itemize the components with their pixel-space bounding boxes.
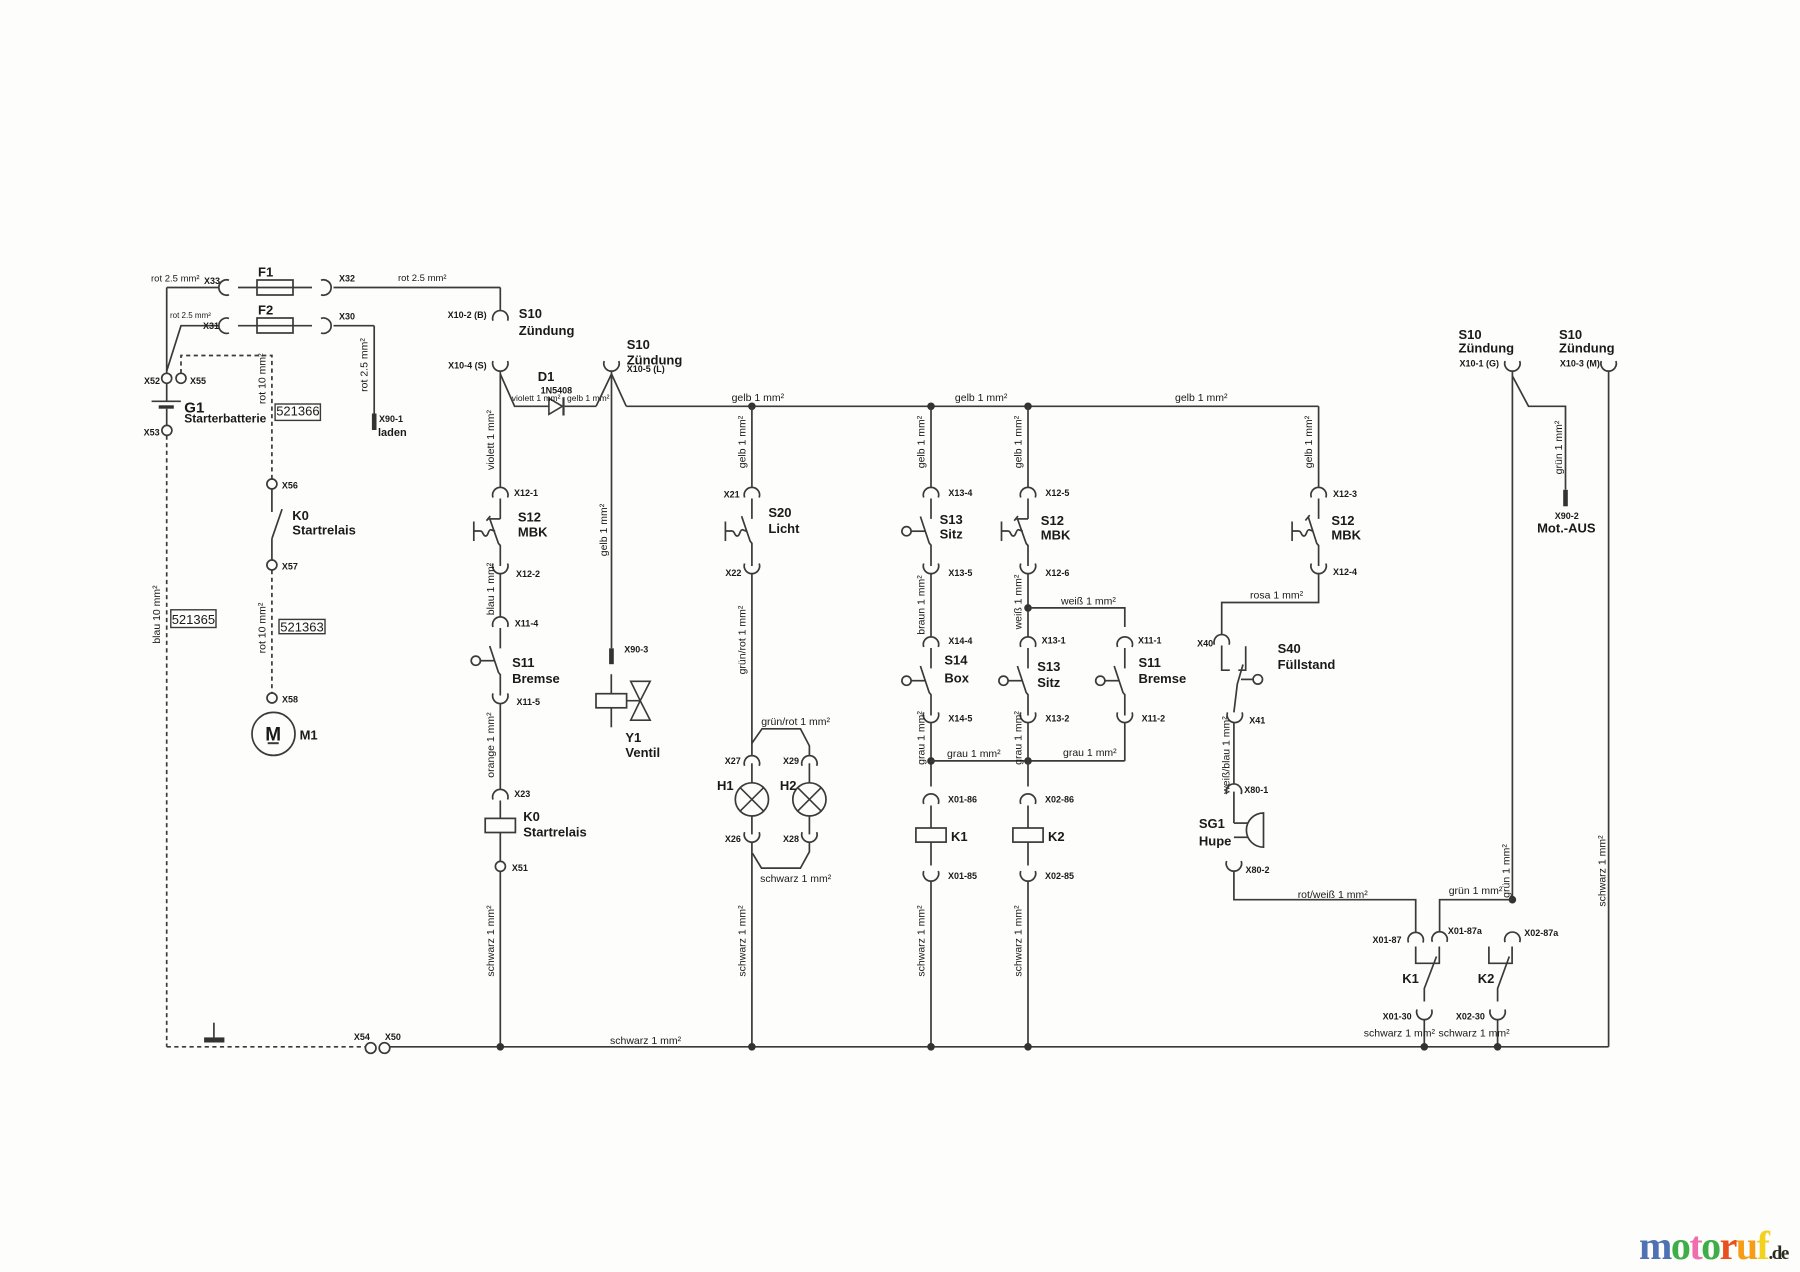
svg-text:X01-85: X01-85 [948, 871, 977, 881]
terminal X41 [1227, 712, 1242, 722]
switch S40 Fuellstand [1222, 646, 1230, 671]
svg-text:rot 2.5 mm²: rot 2.5 mm² [398, 273, 447, 284]
terminal X52 [162, 373, 172, 383]
terminal X22 [744, 564, 759, 574]
junction gruen [1509, 896, 1517, 904]
svg-text:gelb 1 mm²: gelb 1 mm² [916, 415, 928, 468]
wire X02-30 to bus [1497, 1020, 1499, 1047]
junction C4 bus [497, 1043, 505, 1051]
wire gelb down from X10-5 [611, 371, 613, 648]
svg-text:X11-2: X11-2 [1142, 714, 1166, 724]
terminal X11-4 [493, 617, 508, 627]
terminal X55 [176, 373, 186, 383]
wire rot/weiss to K1 contact [1234, 871, 1416, 933]
terminal X14-5 [923, 712, 938, 722]
terminal X53 [162, 425, 172, 435]
svg-text:X21: X21 [724, 490, 740, 500]
svg-text:schwarz 1 mm²: schwarz 1 mm² [1439, 1028, 1511, 1040]
junction grau C8 [1024, 757, 1032, 765]
svg-text:Zündung: Zündung [1459, 341, 1515, 356]
wire D1 to X10-5 [565, 405, 597, 407]
svg-text:X13-1: X13-1 [1042, 636, 1066, 646]
svg-text:Ventil: Ventil [625, 745, 660, 760]
terminal X02-86 [1020, 794, 1035, 804]
wire gruen/rot down [751, 574, 753, 756]
svg-text:X41: X41 [1249, 716, 1265, 726]
wire rot 2.5 from X32 to S10 [334, 287, 501, 289]
svg-text:SG1: SG1 [1199, 816, 1225, 831]
svg-text:X22: X22 [725, 568, 741, 578]
wire gruen to X01-87a [1440, 900, 1513, 932]
terminal X02-30 [1490, 1010, 1505, 1020]
svg-text:MBK: MBK [1331, 528, 1361, 543]
terminal X32 [321, 280, 331, 295]
wire schwarz C7 down [930, 881, 932, 1047]
wire blau 1 [499, 574, 501, 618]
svg-text:M1: M1 [300, 728, 318, 743]
svg-text:Mot.-AUS: Mot.-AUS [1537, 521, 1596, 536]
svg-text:X14-5: X14-5 [948, 714, 972, 724]
svg-text:rot 10 mm²: rot 10 mm² [256, 602, 268, 653]
svg-text:rot 2.5 mm²: rot 2.5 mm² [359, 338, 371, 392]
svg-text:grün 1 mm²: grün 1 mm² [1553, 420, 1565, 474]
svg-text:X13-4: X13-4 [948, 488, 972, 498]
junction K1 bus [1421, 1043, 1429, 1051]
svg-text:Zündung: Zündung [519, 323, 575, 338]
switch S20 Licht [751, 499, 753, 519]
valve Y1 coil [610, 674, 612, 694]
svg-text:X01-87: X01-87 [1372, 935, 1401, 945]
svg-text:K0: K0 [292, 508, 309, 523]
terminal X80-2 [1226, 861, 1241, 871]
terminal X26 [744, 832, 759, 842]
wire gelb main bus [612, 374, 627, 406]
svg-text:X33: X33 [204, 276, 220, 286]
svg-text:blau 1 mm²: blau 1 mm² [485, 562, 497, 615]
terminal X12-5 [1020, 487, 1035, 497]
wire gruen X10-1 down [1511, 371, 1513, 900]
wire rot 2.5 from X30 to laden [334, 325, 375, 327]
terminal X29 [802, 756, 817, 766]
wire gelb drop C6 [751, 406, 753, 487]
svg-text:Zündung: Zündung [1559, 341, 1615, 356]
relay coil K1 [930, 806, 932, 829]
svg-text:Box: Box [944, 671, 969, 686]
switch S11 Bremse [499, 628, 501, 648]
terminal X12-4 [1311, 564, 1326, 574]
terminal X01-87a [1432, 932, 1447, 942]
terminal X12-3 [1311, 487, 1326, 497]
svg-text:X90-3: X90-3 [624, 645, 648, 655]
wire rot 2.5 to F2 [167, 326, 219, 371]
svg-text:gelb 1 mm²: gelb 1 mm² [1013, 415, 1025, 468]
svg-text:F1: F1 [258, 265, 273, 280]
wire branch to X29 [752, 729, 810, 756]
wire schwarz H2 merge [752, 842, 809, 868]
wire schwarz C8 down [1027, 881, 1029, 1047]
svg-text:X02-86: X02-86 [1045, 795, 1074, 805]
junction gelb C8 [1024, 403, 1032, 411]
svg-text:X10-3 (M): X10-3 (M) [1560, 359, 1600, 369]
svg-text:Sitz: Sitz [1037, 675, 1061, 690]
svg-text:X31: X31 [203, 321, 219, 331]
svg-text:grau 1 mm²: grau 1 mm² [916, 711, 928, 765]
switch S12 MBK mid [1027, 499, 1029, 519]
svg-text:X55: X55 [190, 376, 206, 386]
svg-text:X02-30: X02-30 [1456, 1012, 1485, 1022]
wire blau 10 dashed battery to ground bus [166, 436, 168, 1047]
svg-text:K1: K1 [1402, 971, 1419, 986]
wire braun 1 [930, 574, 932, 638]
svg-text:S14: S14 [944, 653, 968, 668]
svg-text:rot 2.5 mm²: rot 2.5 mm² [170, 311, 211, 320]
wire schwarz right riser to X10-3 [1608, 371, 1610, 1047]
switch S12 MBK [499, 499, 501, 519]
svg-text:K1: K1 [951, 829, 968, 844]
svg-text:rot 10 mm²: rot 10 mm² [256, 353, 268, 404]
svg-text:X28: X28 [783, 834, 799, 844]
terminal X30 [321, 318, 331, 333]
terminal X01-87 [1408, 932, 1423, 942]
svg-text:weiß 1 mm²: weiß 1 mm² [1060, 596, 1116, 608]
svg-text:S13: S13 [1037, 659, 1060, 674]
svg-text:schwarz 1 mm²: schwarz 1 mm² [610, 1035, 682, 1047]
svg-text:X14-4: X14-4 [948, 636, 972, 646]
terminal X01-86 [923, 794, 938, 804]
wire weiss down [1027, 574, 1029, 638]
wire rot 10 dashed X57 to X58 [271, 570, 273, 693]
junction C7 bus [927, 1043, 935, 1051]
svg-text:X02-87a: X02-87a [1524, 928, 1559, 938]
svg-text:gelb 1 mm²: gelb 1 mm² [1303, 415, 1315, 468]
svg-text:H2: H2 [780, 778, 797, 793]
switch S13 Sitz [930, 499, 932, 519]
junction K2 bus [1494, 1043, 1502, 1051]
svg-text:K2: K2 [1048, 829, 1065, 844]
svg-text:X52: X52 [144, 376, 160, 386]
svg-text:Füllstand: Füllstand [1278, 657, 1336, 672]
motor M1 [252, 712, 295, 755]
svg-text:X30: X30 [339, 312, 355, 322]
part box 521365 [171, 610, 216, 628]
terminal X01-30 [1417, 1010, 1432, 1020]
svg-text:X11-1: X11-1 [1138, 636, 1162, 646]
svg-text:grün/rot 1 mm²: grün/rot 1 mm² [736, 605, 748, 674]
svg-text:X90-2: X90-2 [1555, 511, 1579, 521]
terminal X80-1 [1226, 784, 1241, 794]
wire X01-30 to bus [1423, 1020, 1425, 1047]
svg-text:Startrelais: Startrelais [523, 825, 587, 840]
junction gelb C7 [927, 403, 935, 411]
svg-text:X32: X32 [339, 274, 355, 284]
terminal X10-5 (L) S10 Zuendung [604, 361, 619, 371]
wire grau C9 down [1124, 722, 1126, 761]
terminal X10-4 (S) [493, 361, 508, 371]
wire gelb drop C8 [1027, 406, 1029, 487]
svg-text:S12: S12 [518, 510, 541, 525]
svg-text:H1: H1 [717, 778, 734, 793]
svg-text:X90-1: X90-1 [379, 414, 403, 424]
svg-text:rot/weiß 1 mm²: rot/weiß 1 mm² [1298, 889, 1369, 901]
wire grau C8 down [1027, 722, 1029, 786]
svg-text:X29: X29 [783, 756, 799, 766]
ground [213, 1023, 215, 1038]
terminal X13-1 [1020, 637, 1035, 647]
svg-text:rosa 1 mm²: rosa 1 mm² [1250, 590, 1304, 602]
svg-text:X10-4 (S): X10-4 (S) [448, 361, 487, 371]
terminal X57 [267, 560, 277, 570]
svg-text:X02-85: X02-85 [1045, 871, 1074, 881]
wire orange 1 [499, 703, 501, 789]
svg-text:X12-6: X12-6 [1045, 568, 1069, 578]
battery G1 [166, 383, 168, 401]
diode D1 1N5408 [549, 398, 563, 414]
svg-text:521366: 521366 [276, 404, 319, 419]
svg-text:violett 1 mm²: violett 1 mm² [512, 393, 561, 403]
wire gruen branch to X90-2 [1512, 376, 1565, 490]
wire schwarz bottom bus [390, 1046, 1609, 1048]
svg-text:Bremse: Bremse [1139, 671, 1187, 686]
terminal X12-1 [493, 487, 508, 497]
svg-text:grau 1 mm²: grau 1 mm² [1063, 747, 1117, 759]
terminal X02-87a [1505, 932, 1520, 942]
terminal X12-2 [493, 564, 508, 574]
relay coil K2 [1027, 806, 1029, 829]
wire weiss/blau down [1233, 722, 1235, 784]
fuse F1 [238, 287, 312, 289]
svg-text:blau 10 mm²: blau 10 mm² [151, 585, 163, 644]
svg-text:X57: X57 [282, 562, 298, 572]
svg-text:Sitz: Sitz [940, 527, 964, 542]
svg-text:schwarz 1 mm²: schwarz 1 mm² [736, 905, 748, 977]
svg-text:X11-5: X11-5 [517, 697, 541, 707]
svg-text:X23: X23 [514, 789, 530, 799]
svg-text:schwarz 1 mm²: schwarz 1 mm² [1597, 835, 1609, 907]
svg-text:521365: 521365 [172, 612, 215, 627]
svg-text:X50: X50 [385, 1032, 401, 1042]
switch S14 Box [930, 648, 932, 668]
lamp H2 [808, 763, 810, 783]
terminal X90-2 Mot.-AUS [1563, 490, 1568, 507]
terminal X21 [744, 487, 759, 497]
svg-text:gelb 1 mm²: gelb 1 mm² [736, 415, 748, 468]
terminal X54 [365, 1043, 376, 1054]
svg-text:X56: X56 [282, 481, 298, 491]
svg-text:gelb 1 mm²: gelb 1 mm² [955, 392, 1008, 404]
wire rot 2.5 from battery up to F1 row [166, 288, 168, 374]
terminal X13-2 [1020, 712, 1035, 722]
svg-text:K0: K0 [523, 809, 540, 824]
valve Y1 bowtie [627, 700, 641, 702]
svg-text:X13-2: X13-2 [1045, 714, 1069, 724]
svg-text:K2: K2 [1478, 971, 1495, 986]
svg-text:schwarz 1 mm²: schwarz 1 mm² [916, 905, 928, 977]
svg-text:orange 1 mm²: orange 1 mm² [485, 712, 497, 778]
svg-text:gelb 1 mm²: gelb 1 mm² [598, 503, 610, 556]
terminal X23 [493, 789, 508, 799]
terminal X90-3 [609, 648, 614, 664]
wire X10-4 to D1 [500, 374, 548, 406]
svg-text:gelb 1 mm²: gelb 1 mm² [567, 393, 610, 403]
svg-text:Starterbatterie: Starterbatterie [184, 412, 266, 426]
svg-text:Y1: Y1 [625, 730, 641, 745]
svg-text:X80-1: X80-1 [1244, 785, 1268, 795]
svg-text:schwarz 1 mm²: schwarz 1 mm² [1013, 905, 1025, 977]
svg-text:X01-87a: X01-87a [1448, 926, 1483, 936]
svg-text:gelb 1 mm²: gelb 1 mm² [732, 392, 785, 404]
fuse F2 [238, 325, 312, 327]
svg-text:X13-5: X13-5 [948, 568, 972, 578]
svg-text:X54: X54 [354, 1032, 370, 1042]
svg-text:gelb 1 mm²: gelb 1 mm² [1175, 392, 1228, 404]
svg-text:MBK: MBK [518, 525, 548, 540]
relay contact K2 [1489, 947, 1512, 964]
terminal X14-4 [923, 637, 938, 647]
terminal X51 [495, 861, 505, 871]
svg-text:S12: S12 [1331, 513, 1354, 528]
svg-text:X12-3: X12-3 [1333, 489, 1357, 499]
svg-text:schwarz 1 mm²: schwarz 1 mm² [760, 873, 832, 885]
terminal X31 [219, 318, 229, 333]
terminal X11-1 [1117, 637, 1132, 647]
terminal X56 [267, 479, 277, 489]
svg-text:rot 2.5 mm²: rot 2.5 mm² [151, 274, 200, 285]
svg-text:violett 1 mm²: violett 1 mm² [485, 409, 497, 470]
svg-text:X10-1 (G): X10-1 (G) [1459, 359, 1499, 369]
svg-text:weiß 1 mm²: weiß 1 mm² [1013, 574, 1025, 630]
svg-text:F2: F2 [258, 303, 273, 318]
svg-text:X01-30: X01-30 [1383, 1012, 1412, 1022]
terminal X11-5 [493, 693, 508, 703]
svg-text:grau 1 mm²: grau 1 mm² [947, 748, 1001, 760]
svg-text:grün 1 mm²: grün 1 mm² [1449, 885, 1503, 897]
relay contact K1 [1416, 947, 1440, 964]
terminal X28 [802, 832, 817, 842]
terminal X27 [744, 756, 759, 766]
svg-text:X12-4: X12-4 [1333, 567, 1357, 577]
svg-text:X01-86: X01-86 [948, 795, 977, 805]
svg-text:S10: S10 [627, 337, 650, 352]
wire violett down from X10-4 [499, 371, 501, 488]
part box 521366 [275, 404, 320, 420]
svg-text:X12-2: X12-2 [516, 569, 540, 579]
svg-text:X11-4: X11-4 [515, 619, 539, 629]
wire schwarz C6 down [751, 842, 753, 1047]
terminal X40 [1214, 635, 1229, 645]
svg-text:S12: S12 [1041, 513, 1064, 528]
wire dashed X55 to X56 [181, 356, 272, 479]
svg-text:X12-1: X12-1 [514, 488, 538, 498]
switch S13 Sitz 2 [1027, 648, 1029, 668]
part box 521363 [279, 619, 325, 633]
junction C8 bus [1024, 1043, 1032, 1051]
svg-text:grün/rot 1 mm²: grün/rot 1 mm² [761, 716, 830, 728]
svg-text:S11: S11 [512, 655, 534, 670]
svg-text:schwarz 1 mm²: schwarz 1 mm² [485, 905, 497, 977]
junction C6 bus [748, 1043, 756, 1051]
svg-text:schwarz 1 mm²: schwarz 1 mm² [1364, 1028, 1436, 1040]
svg-text:Bremse: Bremse [512, 671, 560, 686]
svg-text:X10-2 (B): X10-2 (B) [448, 310, 487, 320]
wire gelb drop C7 [930, 406, 932, 487]
terminal X11-2 [1117, 712, 1132, 722]
svg-text:X53: X53 [144, 428, 160, 438]
relay contact K0 Startrelais [271, 489, 273, 512]
horn SG1 Hupe [1233, 792, 1235, 824]
svg-text:laden: laden [378, 427, 407, 439]
svg-text:S10: S10 [519, 306, 542, 321]
svg-text:S20: S20 [768, 505, 791, 520]
svg-text:Startrelais: Startrelais [292, 523, 356, 538]
svg-text:X58: X58 [282, 695, 298, 705]
svg-text:X27: X27 [725, 756, 741, 766]
svg-text:X12-5: X12-5 [1045, 488, 1069, 498]
svg-text:S13: S13 [940, 512, 963, 527]
junction weiss [1024, 604, 1032, 612]
terminal X02-85 [1020, 871, 1035, 881]
wire schwarz C4 down [499, 872, 501, 1047]
switch S12 MBK right [1318, 499, 1320, 519]
junction gelb C6 [748, 403, 756, 411]
svg-text:Hupe: Hupe [1199, 834, 1232, 849]
terminal X33 [219, 280, 229, 295]
terminal X13-5 [923, 564, 938, 574]
svg-text:S11: S11 [1139, 655, 1161, 670]
switch S11 Bremse 2 [1124, 648, 1126, 668]
svg-text:X51: X51 [512, 863, 528, 873]
svg-text:X80-2: X80-2 [1246, 865, 1270, 875]
svg-text:MBK: MBK [1041, 528, 1071, 543]
relay coil K0 Startrelais [499, 801, 501, 819]
wire weiss bus [1028, 608, 1125, 627]
terminal X90-1 laden [372, 414, 377, 431]
svg-text:X40: X40 [1197, 639, 1213, 649]
wire grau bus [931, 760, 1125, 762]
terminal X13-4 [923, 487, 938, 497]
terminal X50 [379, 1043, 390, 1054]
terminal X10-2 (B) S10 Zuendung [493, 311, 508, 321]
svg-text:X10-5 (L): X10-5 (L) [627, 364, 665, 374]
terminal X12-6 [1020, 564, 1035, 574]
svg-text:S40: S40 [1278, 641, 1301, 656]
svg-text:X26: X26 [725, 834, 741, 844]
svg-text:D1: D1 [538, 369, 555, 384]
wire rosa [1222, 574, 1319, 635]
terminal X01-85 [923, 871, 938, 881]
terminal X58 [267, 693, 277, 703]
wire grau C7 down [930, 722, 932, 786]
svg-text:grau 1 mm²: grau 1 mm² [1013, 711, 1025, 765]
svg-text:521363: 521363 [280, 620, 323, 635]
svg-text:Licht: Licht [768, 521, 800, 536]
lamp H1 [751, 763, 753, 783]
junction grau C7 [927, 757, 935, 765]
svg-text:weiß/blau 1 mm²: weiß/blau 1 mm² [1220, 716, 1232, 795]
svg-text:braun 1 mm²: braun 1 mm² [916, 575, 928, 635]
